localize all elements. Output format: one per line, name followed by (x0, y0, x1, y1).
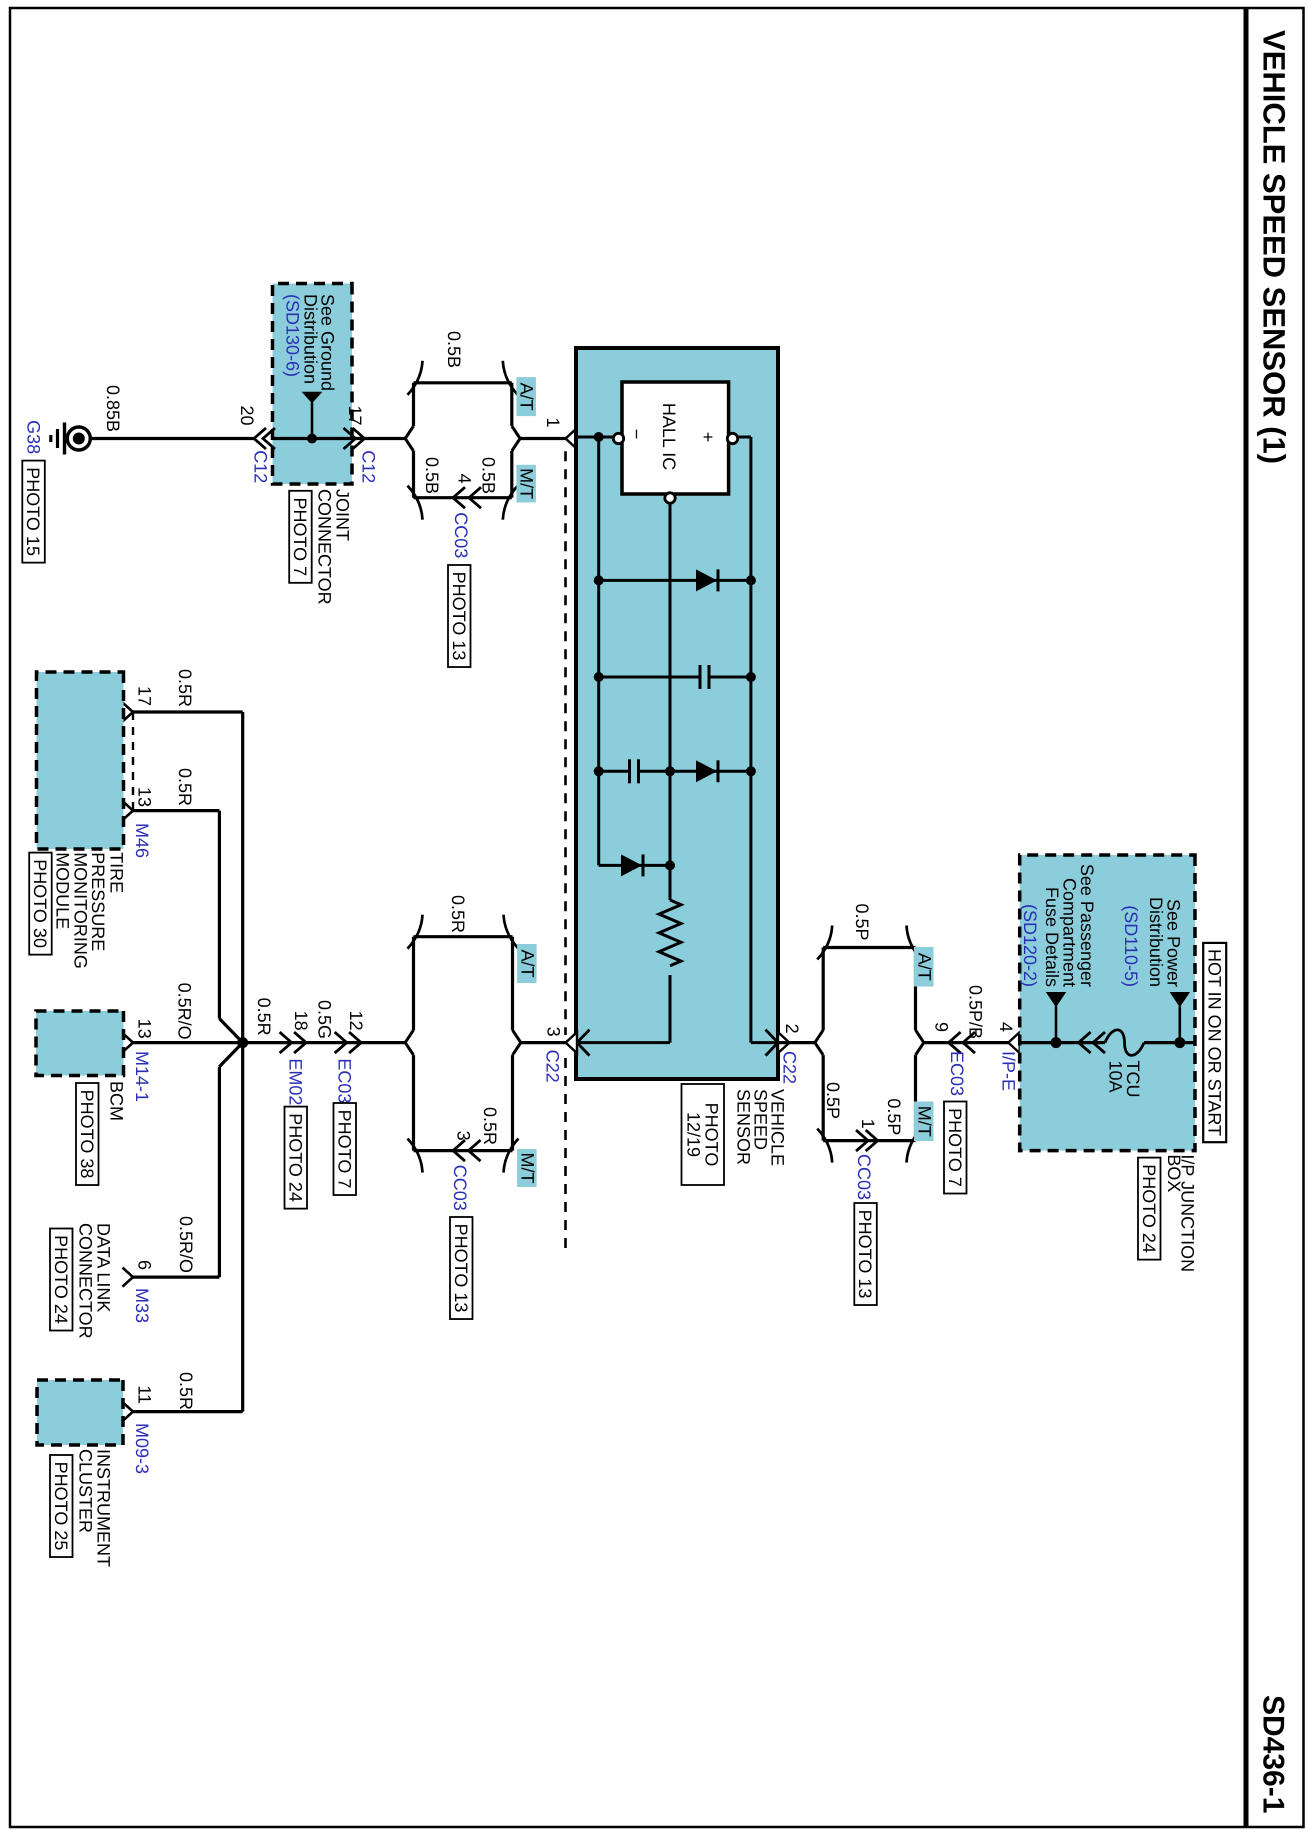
svg-text:(SD120-2): (SD120-2) (1020, 904, 1040, 987)
svg-text:(SD110-5): (SD110-5) (1121, 905, 1141, 987)
svg-text:0.5R: 0.5R (254, 998, 274, 1036)
svg-text:0.5R: 0.5R (175, 768, 195, 806)
svg-text:0.5R/O: 0.5R/O (176, 1216, 196, 1273)
svg-text:13: 13 (135, 1019, 155, 1039)
svg-text:6: 6 (135, 1260, 155, 1270)
svg-text:DATA LINK: DATA LINK (94, 1223, 114, 1312)
svg-text:BCM: BCM (107, 1081, 127, 1121)
svg-text:(SD130-6): (SD130-6) (283, 294, 303, 377)
svg-text:MODULE: MODULE (52, 852, 72, 929)
svg-text:EM02: EM02 (286, 1058, 306, 1105)
svg-text:12: 12 (346, 1011, 366, 1031)
svg-text:0.5P: 0.5P (823, 1082, 843, 1119)
svg-text:C12: C12 (358, 450, 378, 483)
svg-text:10A: 10A (1106, 1061, 1126, 1093)
svg-text:CC03: CC03 (854, 1154, 874, 1200)
svg-text:M/T: M/T (517, 1153, 537, 1184)
svg-text:CC03: CC03 (451, 512, 471, 558)
svg-text:PHOTO 24: PHOTO 24 (51, 1235, 71, 1324)
svg-text:A/T: A/T (517, 949, 537, 977)
svg-text:PHOTO 13: PHOTO 13 (855, 1210, 875, 1299)
svg-text:INSTRUMENT: INSTRUMENT (94, 1449, 114, 1567)
svg-text:0.5P/B: 0.5P/B (966, 985, 986, 1039)
svg-text:0.5R: 0.5R (175, 669, 195, 707)
svg-text:M46: M46 (132, 823, 152, 858)
svg-text:MONITORING: MONITORING (70, 852, 90, 969)
svg-text:1: 1 (543, 417, 563, 427)
svg-text:CONNECTOR: CONNECTOR (76, 1223, 96, 1339)
svg-text:EC03: EC03 (947, 1051, 967, 1096)
svg-text:11: 11 (135, 1385, 155, 1404)
svg-text:0.5R/O: 0.5R/O (175, 983, 195, 1040)
svg-text:PHOTO 7: PHOTO 7 (290, 497, 310, 576)
svg-text:PHOTO 25: PHOTO 25 (51, 1462, 71, 1551)
svg-text:0.85B: 0.85B (103, 385, 123, 432)
svg-text:3: 3 (544, 1027, 564, 1037)
svg-text:G38: G38 (24, 420, 44, 454)
svg-text:0.5R: 0.5R (480, 1107, 500, 1145)
svg-text:PHOTO 30: PHOTO 30 (30, 859, 50, 948)
svg-text:M14-1: M14-1 (132, 1051, 152, 1102)
svg-text:HOT IN ON OR START: HOT IN ON OR START (1205, 949, 1225, 1136)
svg-text:CC03: CC03 (450, 1165, 470, 1211)
svg-text:M/T: M/T (517, 468, 537, 499)
svg-text:Distribution: Distribution (301, 294, 321, 384)
svg-text:0.5P: 0.5P (884, 1098, 904, 1135)
svg-text:0.5G: 0.5G (315, 1000, 335, 1039)
svg-text:I/P-E: I/P-E (999, 1051, 1019, 1091)
svg-text:18: 18 (291, 1011, 311, 1031)
svg-text:CLUSTER: CLUSTER (76, 1449, 96, 1533)
svg-text:17: 17 (345, 405, 365, 425)
svg-text:EC03: EC03 (335, 1058, 355, 1103)
svg-text:PHOTO 24: PHOTO 24 (1139, 1164, 1159, 1253)
svg-text:4: 4 (996, 1022, 1016, 1032)
svg-text:A/T: A/T (914, 953, 934, 981)
svg-text:M/T: M/T (914, 1106, 934, 1137)
svg-text:0.5B: 0.5B (422, 457, 442, 494)
svg-text:CONNECTOR: CONNECTOR (315, 489, 335, 605)
svg-text:HALL IC: HALL IC (659, 403, 679, 470)
svg-text:PHOTO 7: PHOTO 7 (334, 1110, 354, 1189)
svg-text:9: 9 (932, 1022, 952, 1032)
svg-text:1: 1 (858, 1119, 878, 1129)
svg-text:PHOTO 13: PHOTO 13 (451, 1224, 471, 1313)
svg-text:Distribution: Distribution (1146, 897, 1166, 987)
svg-text:M09-3: M09-3 (132, 1423, 152, 1474)
svg-text:PHOTO 38: PHOTO 38 (77, 1090, 97, 1179)
svg-text:VEHICLE SPEED SENSOR (1): VEHICLE SPEED SENSOR (1) (1257, 30, 1292, 464)
svg-text:0.5P: 0.5P (852, 903, 872, 940)
svg-text:C12: C12 (251, 450, 271, 483)
svg-text:PHOTO 7: PHOTO 7 (945, 1108, 965, 1187)
svg-text:Fuse Details: Fuse Details (1042, 887, 1062, 987)
svg-text:4: 4 (455, 474, 475, 484)
svg-text:PHOTO: PHOTO (702, 1103, 722, 1167)
svg-text:−: − (627, 429, 647, 440)
svg-text:JOINT: JOINT (333, 489, 353, 541)
svg-text:A/T: A/T (517, 383, 537, 411)
svg-text:0.5R: 0.5R (176, 1372, 196, 1410)
svg-text:PHOTO 13: PHOTO 13 (449, 572, 469, 661)
svg-text:20: 20 (237, 405, 257, 425)
svg-text:17: 17 (135, 686, 155, 706)
svg-text:PHOTO 15: PHOTO 15 (23, 467, 43, 556)
svg-text:C22: C22 (780, 1051, 800, 1084)
svg-text:3: 3 (454, 1131, 474, 1141)
svg-text:0.5R: 0.5R (448, 895, 468, 933)
svg-text:C22: C22 (543, 1050, 563, 1083)
svg-text:0.5B: 0.5B (444, 331, 464, 368)
svg-text:SD436-1: SD436-1 (1257, 1695, 1290, 1813)
svg-text:12/19: 12/19 (684, 1112, 704, 1157)
svg-text:M33: M33 (132, 1288, 152, 1323)
svg-text:SENSOR: SENSOR (734, 1089, 754, 1165)
svg-text:2: 2 (782, 1024, 802, 1034)
svg-text:TIRE: TIRE (106, 852, 126, 893)
svg-text:+: + (698, 432, 718, 443)
svg-text:BOX: BOX (1164, 1154, 1184, 1192)
svg-text:13: 13 (135, 787, 155, 807)
svg-text:PHOTO 24: PHOTO 24 (285, 1113, 305, 1202)
